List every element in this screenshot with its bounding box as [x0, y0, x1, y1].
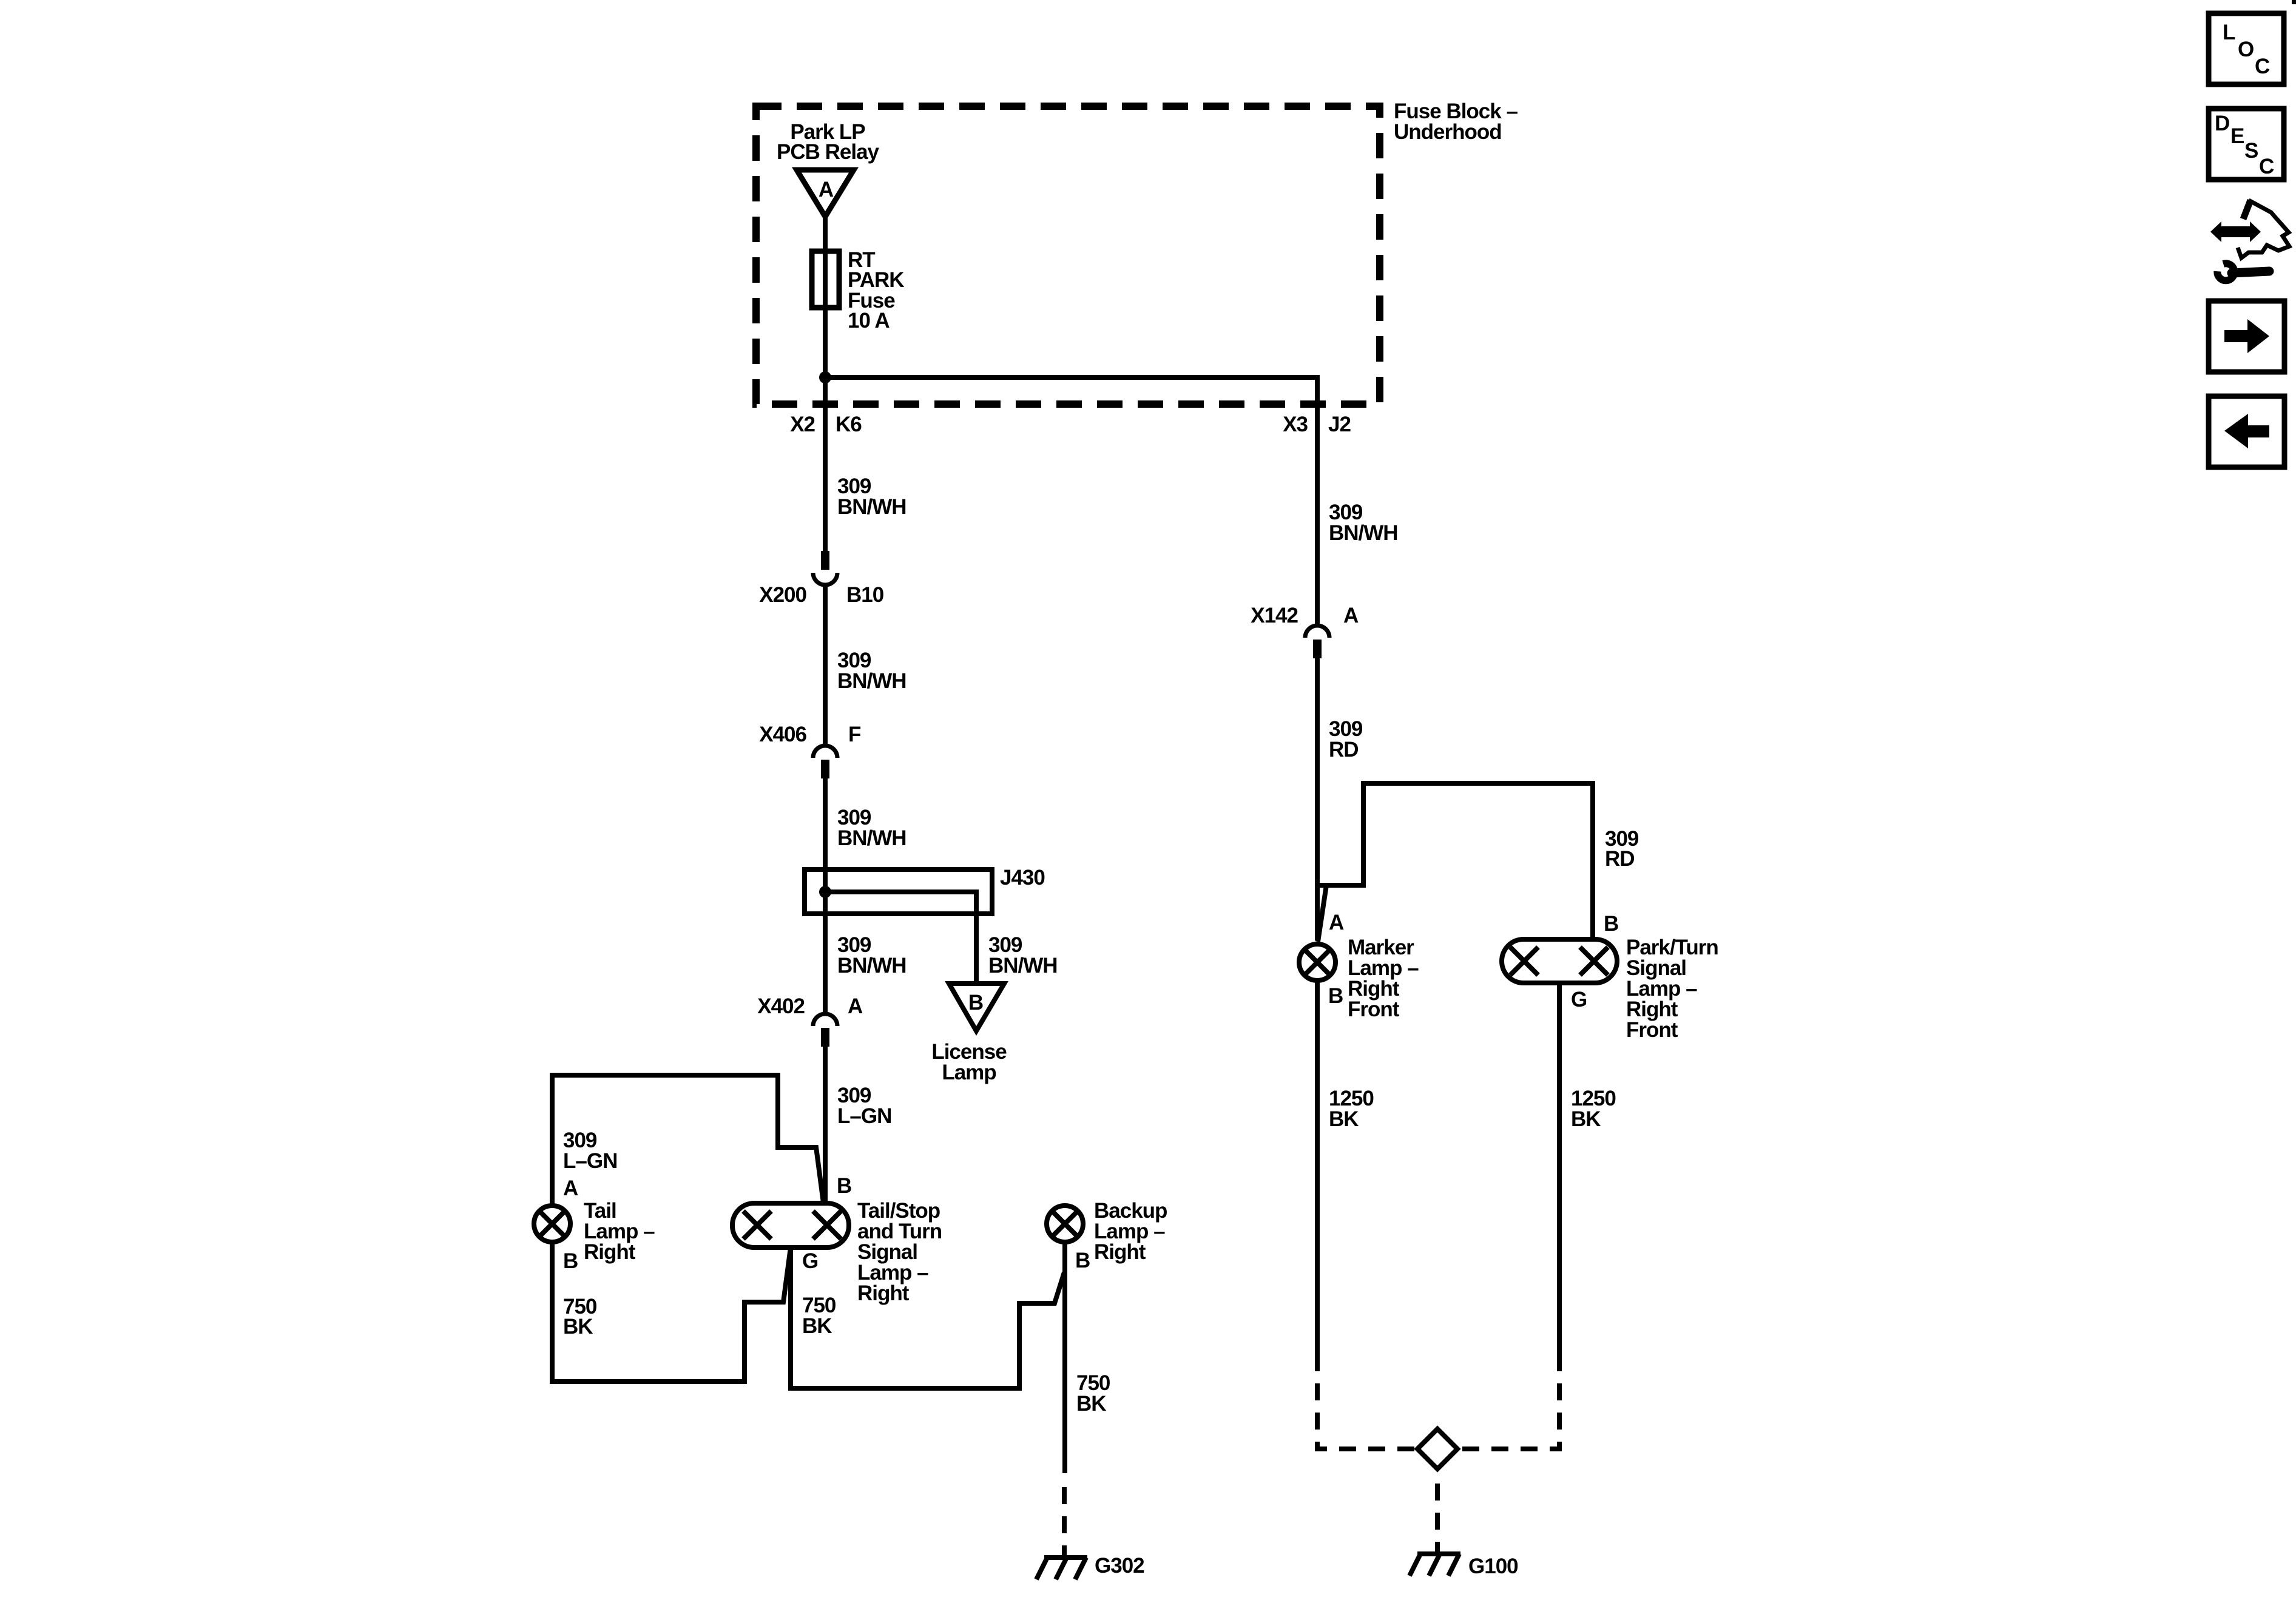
svg-text:B: B	[563, 1249, 578, 1273]
LEFTBRANCH	[757, 474, 1057, 1204]
LAMPS	[534, 1075, 1167, 1579]
ground G100	[1410, 1554, 1518, 1578]
svg-text:A: A	[1343, 604, 1359, 627]
wire branch loop to park/turn lamp B	[1317, 783, 1593, 940]
svg-text:Underhood: Underhood	[1394, 120, 1502, 144]
service info icon (double arrow, outline, wrench)	[2210, 200, 2289, 280]
svg-text:O: O	[2238, 38, 2254, 61]
svg-text:A: A	[563, 1176, 578, 1200]
svg-text:BK: BK	[1076, 1392, 1106, 1416]
svg-text:J430: J430	[1000, 866, 1045, 890]
svg-text:G: G	[802, 1249, 818, 1273]
svg-text:S: S	[2244, 139, 2258, 163]
svg-text:K6: K6	[836, 413, 862, 436]
marker lamp right front	[1299, 936, 1419, 1021]
svg-text:X142: X142	[1251, 604, 1298, 627]
svg-text:X406: X406	[759, 723, 806, 746]
wire marker lamp B down	[1315, 981, 1320, 1371]
svg-text:B: B	[837, 1174, 851, 1198]
wire relay to junction	[823, 215, 828, 377]
svg-text:Right: Right	[857, 1281, 910, 1305]
dashed ground wire right	[1457, 1371, 1559, 1449]
svg-text:J2: J2	[1328, 413, 1351, 436]
page corner mark	[2292, 0, 2296, 4]
park/turn signal lamp right front	[1502, 912, 1718, 1042]
svg-text:A: A	[1329, 911, 1344, 934]
svg-text:B: B	[968, 991, 983, 1014]
svg-text:BN/WH: BN/WH	[837, 495, 907, 519]
svg-text:L–GN: L–GN	[837, 1104, 891, 1128]
tail/stop and turn signal lamp	[732, 1174, 942, 1305]
svg-text:G100: G100	[1468, 1555, 1518, 1578]
svg-text:G: G	[1571, 988, 1587, 1011]
svg-text:Front: Front	[1626, 1018, 1678, 1042]
svg-text:BK: BK	[563, 1315, 593, 1338]
connector X402 A	[757, 994, 863, 1047]
wire junction down to X2 K6	[823, 377, 828, 553]
wire slant to marker lamp A	[1318, 885, 1326, 942]
dashed ground wire left	[1317, 1371, 1417, 1449]
fuse RT PARK 10A	[812, 251, 839, 308]
FUSEBLOCK	[756, 100, 1518, 626]
svg-text:Right: Right	[1094, 1240, 1146, 1264]
backup lamp right	[1047, 1199, 1167, 1264]
svg-text:B: B	[1328, 984, 1343, 1008]
splice pack J430	[805, 866, 1045, 984]
wire X142 to marker lamp	[1315, 658, 1320, 940]
svg-text:X2: X2	[790, 413, 815, 436]
license lamp triangle B	[931, 984, 1007, 1084]
wire tail lamp B to tail/stop lamp G	[552, 1242, 791, 1382]
svg-text:X402: X402	[757, 994, 805, 1018]
svg-text:BK: BK	[1571, 1107, 1601, 1131]
connector X406 F	[759, 723, 861, 778]
svg-text:Front: Front	[1348, 998, 1400, 1021]
svg-text:BN/WH: BN/WH	[837, 669, 907, 693]
svg-text:PCB Relay: PCB Relay	[777, 140, 880, 164]
wire X406 to X402 through J430	[823, 778, 828, 1014]
svg-text:X200: X200	[759, 583, 806, 607]
svg-text:RD: RD	[1605, 847, 1635, 871]
svg-text:X3: X3	[1283, 413, 1308, 436]
svg-text:RD: RD	[1329, 738, 1359, 761]
svg-text:B10: B10	[846, 583, 884, 607]
svg-text:BN/WH: BN/WH	[1329, 521, 1398, 545]
svg-text:F: F	[848, 723, 861, 746]
svg-text:10 A: 10 A	[848, 309, 890, 333]
splice diamond	[1417, 1429, 1457, 1469]
svg-text:L–GN: L–GN	[563, 1149, 617, 1173]
connector X200 B10	[759, 551, 883, 607]
svg-text:L: L	[2223, 21, 2235, 44]
wire tail/stop G to backup lamp B	[791, 1246, 1064, 1388]
next-page arrow box	[2209, 301, 2284, 372]
svg-text:BN/WH: BN/WH	[837, 826, 907, 850]
fuse block dashed box	[756, 106, 1380, 404]
svg-text:G302: G302	[1095, 1554, 1144, 1578]
DESC button box	[2209, 109, 2284, 180]
svg-text:BN/WH: BN/WH	[837, 954, 907, 977]
dashed wire diamond to G100	[1435, 1471, 1440, 1555]
wire branch loop to tail lamp A	[552, 1075, 823, 1204]
svg-text:C: C	[2255, 55, 2270, 78]
SIDEBAR	[2209, 0, 2296, 467]
dashed wire to G302	[1062, 1487, 1067, 1558]
LOC button box	[2209, 13, 2284, 84]
svg-text:BK: BK	[1329, 1107, 1359, 1131]
wire X402 to tail/stop lamp B	[823, 1047, 828, 1204]
svg-text:Right: Right	[584, 1240, 636, 1264]
RIGHTBRANCH	[1251, 501, 1718, 1578]
tail lamp right	[534, 1199, 655, 1264]
wire park/turn G down	[1557, 983, 1562, 1371]
connector X142 A	[1251, 604, 1359, 658]
relay output triangle A	[797, 170, 854, 217]
previous-page arrow box	[2209, 396, 2284, 467]
svg-text:BK: BK	[802, 1314, 832, 1338]
svg-text:BN/WH: BN/WH	[988, 954, 1058, 977]
wire X200 to X406	[823, 584, 828, 746]
svg-text:Lamp: Lamp	[942, 1061, 996, 1084]
junction dot	[819, 371, 831, 383]
svg-text:A: A	[819, 178, 834, 201]
svg-text:C: C	[2259, 155, 2274, 178]
svg-text:B: B	[1075, 1249, 1090, 1272]
svg-text:A: A	[848, 994, 863, 1018]
ground G302	[1036, 1554, 1144, 1579]
svg-text:D: D	[2215, 112, 2229, 135]
svg-text:E: E	[2230, 124, 2244, 148]
wire backup lamp B down	[1062, 1242, 1067, 1473]
svg-text:B: B	[1604, 912, 1618, 936]
wire junction to X3 J2	[825, 377, 1317, 626]
